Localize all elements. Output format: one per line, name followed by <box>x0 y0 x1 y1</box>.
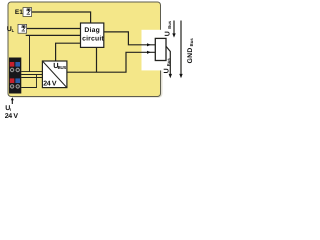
svg-text:GND: GND <box>187 47 194 63</box>
wire Diag left input from DC/DC top <box>56 43 81 61</box>
wire branch down to supply rail <box>29 35 31 71</box>
svg-text:Bus: Bus <box>166 58 171 67</box>
svg-text:Bus: Bus <box>189 38 194 47</box>
wire DC/DC output to bus interface <box>67 52 155 72</box>
bus line GNDBus <box>180 21 182 75</box>
svg-text:i: i <box>10 107 11 112</box>
arrowhead GNDBus <box>179 74 182 78</box>
module housing (yellow body) <box>8 2 161 97</box>
bus connector notch (white cutout) <box>142 30 166 71</box>
wire Diag output to bus interface <box>104 32 156 45</box>
svg-text:Diag: Diag <box>84 27 100 34</box>
svg-text:E1: E1 <box>15 9 23 16</box>
bus line UBus incoming (top) <box>173 21 175 35</box>
wire supply line 3 terminal block to DC/DC <box>21 77 42 79</box>
input icon UL <box>18 24 27 33</box>
wire supply line 2 terminal block to DC/DC <box>21 74 42 76</box>
arrowhead Ui input <box>11 97 14 100</box>
terminal block X1 <box>9 58 21 94</box>
label GNDBus <box>187 38 194 64</box>
Diag circuit block U1 <box>81 23 105 47</box>
bus interface block <box>155 38 166 60</box>
svg-text:U: U <box>165 31 172 36</box>
arrowhead into bus interface (upper) <box>147 43 151 46</box>
arrowhead UBus incoming <box>172 33 175 37</box>
svg-text:circuit: circuit <box>82 35 104 42</box>
wire Diag bottom to bus rail <box>96 47 98 72</box>
arrowhead into bus interface (lower) <box>147 51 151 54</box>
wire return branch to terminal block <box>21 75 36 88</box>
wire second input line to Diag circuit left <box>26 34 81 36</box>
arrowhead UBus outgoing <box>169 74 172 78</box>
label UBus top <box>165 20 172 36</box>
supply input arrow Ui <box>11 100 13 104</box>
svg-text:24 V: 24 V <box>5 113 19 120</box>
wire supply line 1 terminal block to DC/DC <box>21 71 42 73</box>
wire E1 to Diag circuit top <box>32 12 91 23</box>
input icon E1 <box>23 8 32 17</box>
svg-text:L: L <box>12 28 15 33</box>
module housing shadow <box>10 30 163 98</box>
svg-text:Bus: Bus <box>167 20 172 29</box>
label UBus bottom <box>164 58 171 74</box>
svg-text:24 V: 24 V <box>43 81 57 88</box>
wire UL to Diag circuit left <box>27 28 81 30</box>
svg-text:U: U <box>164 68 171 73</box>
svg-text:BUS: BUS <box>58 65 67 70</box>
bus line UBus outgoing (bottom) <box>166 46 170 74</box>
DC/DC converter UBUS <box>42 61 67 88</box>
